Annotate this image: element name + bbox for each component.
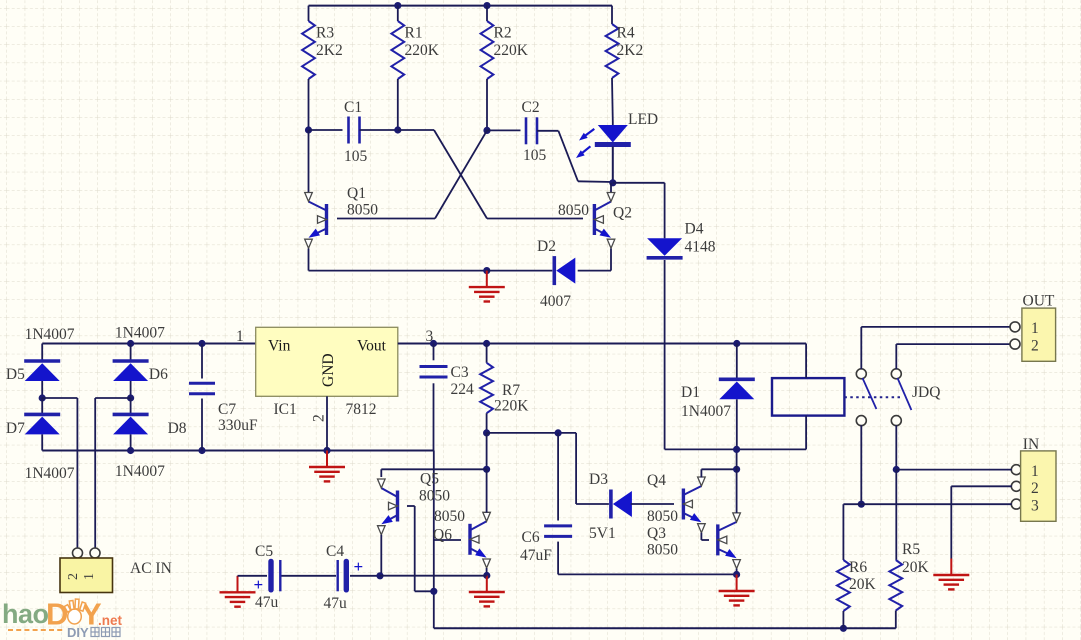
svg-text:3: 3 — [1031, 498, 1039, 515]
diode D6 — [113, 361, 149, 381]
wire D6 top lead — [130, 344, 132, 362]
contact 1b — [856, 416, 866, 426]
junction — [430, 340, 437, 347]
svg-text:47uF: 47uF — [520, 547, 552, 564]
junction — [483, 572, 490, 579]
D4 bottom lead — [664, 260, 666, 449]
wire C2 diagonal — [558, 131, 578, 182]
svg-text:C6: C6 — [522, 529, 540, 546]
contact 2a — [891, 369, 901, 379]
junction — [127, 447, 134, 454]
capacitor C5 — [268, 559, 273, 593]
wire IN1 row — [896, 469, 1011, 471]
Q6 emitter lead — [486, 568, 488, 576]
wire R2 top lead — [486, 6, 488, 21]
wire R6 bottom lead — [842, 611, 844, 628]
Q6 collector lead — [486, 469, 488, 512]
svg-text:R6: R6 — [849, 559, 867, 576]
wire center column — [433, 451, 435, 629]
svg-text:C7: C7 — [218, 401, 236, 418]
wire AC tap 1 horizontal — [42, 397, 77, 399]
svg-text:8050: 8050 — [647, 508, 678, 525]
svg-text:1: 1 — [236, 328, 244, 345]
diode D7 — [24, 414, 60, 434]
wire R5 bottom lead — [895, 611, 897, 629]
wire C3 bottom lead — [433, 383, 435, 450]
D4 top lead — [664, 183, 666, 239]
wire D1 top lead — [736, 344, 738, 380]
wire to OUT2 — [896, 343, 1010, 345]
svg-text:D3: D3 — [589, 471, 608, 488]
svg-text:224: 224 — [451, 381, 475, 398]
svg-text:8050: 8050 — [347, 202, 378, 219]
svg-text:R3: R3 — [316, 25, 334, 42]
LED light arrow 1 — [579, 133, 588, 141]
ground (Q3) — [719, 575, 755, 606]
svg-text:GND: GND — [320, 353, 337, 387]
wire gnd to C5 — [238, 575, 268, 577]
junction — [430, 588, 437, 595]
IN pin 2 circle — [1011, 481, 1021, 491]
Q1 emitter wire — [308, 249, 310, 271]
wire C7 bottom lead — [201, 399, 203, 451]
resistor R5 — [889, 560, 902, 611]
wire D5-D7 link — [41, 381, 43, 398]
svg-text:C4: C4 — [326, 543, 344, 560]
IC GND pin wire — [326, 396, 328, 450]
svg-text:D7: D7 — [6, 420, 25, 437]
wire bottom bus — [434, 627, 896, 629]
junction — [483, 429, 490, 436]
Q3 collector wire — [736, 469, 738, 513]
wire D8 top lead — [130, 398, 132, 414]
wire contact2b down — [895, 425, 897, 469]
wire C3 top lead — [433, 344, 435, 361]
svg-text:D8: D8 — [168, 420, 187, 437]
transistor Q5 — [378, 479, 398, 535]
svg-text:IC1: IC1 — [274, 401, 297, 418]
ground (flip-flop) — [469, 271, 505, 302]
wire Q6 base — [434, 539, 461, 541]
svg-text:1N4007: 1N4007 — [25, 326, 75, 343]
wire Q1 base — [337, 218, 435, 220]
svg-text:105: 105 — [523, 147, 547, 164]
wire R3 top lead — [308, 6, 310, 21]
wire Vout rail — [398, 343, 806, 345]
resistor R3 — [302, 21, 315, 79]
wire D2 anode to Q2 — [578, 270, 611, 272]
wire R7 node down — [486, 433, 488, 469]
IC U1 7812 body — [256, 327, 398, 396]
wire cross diagonal 1 — [434, 130, 487, 219]
wire D7 bottom lead — [41, 434, 43, 450]
connector IN body — [1021, 451, 1056, 521]
wire R7 to C6/D3 — [487, 432, 576, 434]
wire Q2 base — [487, 218, 583, 220]
svg-text:LED: LED — [628, 111, 658, 128]
svg-text:2: 2 — [311, 414, 328, 422]
wire C6 bottom lead — [557, 542, 559, 575]
junction — [733, 466, 740, 473]
Q2 emitter wire — [610, 249, 612, 271]
capacitor C1 — [349, 117, 360, 144]
wire AC tap 2 vertical — [94, 398, 96, 548]
logo haoDIY.net — [2, 597, 123, 640]
Q4 emitter to Q3 base — [700, 533, 702, 540]
Q2 collector wire — [610, 183, 612, 193]
wire to R5 top — [895, 470, 897, 561]
resistor R6 — [837, 560, 850, 611]
svg-text:R7: R7 — [502, 382, 520, 399]
svg-text:220K: 220K — [405, 42, 440, 59]
OUT pin 1 circle — [1010, 322, 1020, 332]
junction — [483, 2, 490, 9]
svg-text:JDQ: JDQ — [912, 384, 940, 401]
svg-text:OUT: OUT — [1023, 293, 1055, 310]
wire R4 top lead — [611, 6, 613, 24]
svg-text:Vin: Vin — [268, 338, 291, 355]
svg-text:2K2: 2K2 — [617, 42, 644, 59]
junction — [394, 126, 401, 133]
capacitor C7 — [189, 383, 215, 394]
svg-text:R4: R4 — [617, 25, 635, 42]
wire node A to cross — [398, 129, 434, 131]
svg-text:1: 1 — [82, 573, 97, 580]
wire Q5 collector row — [381, 468, 486, 470]
svg-text:R1: R1 — [405, 25, 423, 42]
svg-text:C1: C1 — [344, 99, 362, 116]
svg-text:Q4: Q4 — [647, 472, 666, 489]
transistor Q3 — [718, 513, 741, 569]
OUT pin 2 circle — [1010, 339, 1020, 349]
svg-text:1: 1 — [1031, 320, 1039, 337]
wire contact1b down — [860, 425, 862, 504]
wire R7 top lead — [486, 344, 488, 363]
svg-text:R5: R5 — [902, 541, 920, 558]
capacitor C4 — [337, 560, 339, 591]
junction — [609, 179, 616, 186]
ground (IC1) — [309, 451, 345, 482]
resistor R4 — [606, 24, 619, 78]
junction — [840, 625, 847, 632]
svg-text:1: 1 — [1031, 463, 1039, 480]
AC pin 2 circle — [73, 548, 83, 558]
junction — [127, 340, 134, 347]
svg-text:330uF: 330uF — [218, 417, 258, 434]
svg-text:C2: C2 — [522, 99, 540, 116]
diode D5 — [24, 361, 60, 381]
wire AC tap 2 horizontal — [95, 397, 130, 399]
junction — [127, 394, 134, 401]
svg-text:4148: 4148 — [685, 239, 716, 256]
svg-text:D: D — [46, 597, 68, 632]
junction — [483, 340, 490, 347]
wire Vin rail — [42, 343, 256, 345]
relay dotted link — [844, 396, 901, 398]
svg-text:47u: 47u — [324, 595, 348, 612]
svg-text:220K: 220K — [494, 398, 529, 415]
svg-text:C5: C5 — [255, 543, 273, 560]
resistor R2 — [481, 21, 494, 79]
svg-text:1N4007: 1N4007 — [115, 325, 165, 342]
wire C1 left — [309, 129, 343, 131]
junction — [483, 127, 490, 134]
svg-text:+: + — [254, 575, 264, 594]
wire to D3 cathode — [576, 503, 609, 505]
ground (IN2) — [933, 559, 969, 590]
wire D6-D8 link — [130, 381, 132, 398]
wire AC tap 1 vertical — [76, 398, 78, 548]
capacitor C6 — [544, 526, 572, 537]
wire D1 bottom lead — [736, 399, 738, 449]
junction — [733, 340, 740, 347]
svg-text:D5: D5 — [6, 366, 25, 383]
junction — [733, 571, 740, 578]
svg-text:IN: IN — [1023, 436, 1039, 453]
wire IN2 row — [951, 485, 1011, 487]
junction — [555, 429, 562, 436]
wire to D2 cathode — [487, 270, 553, 272]
svg-text:AC IN: AC IN — [130, 560, 172, 577]
svg-text:hao: hao — [2, 599, 49, 629]
transistor Q6 — [470, 512, 490, 568]
wire D3 to Q4 base — [631, 503, 674, 505]
wire R1 top lead — [397, 6, 399, 21]
wire contact2 up — [895, 344, 897, 369]
wire LED node to D4 — [613, 182, 665, 184]
zener D3 — [611, 490, 632, 519]
wire C5 to C4 — [282, 575, 337, 577]
wire R4 bottom lead — [611, 78, 614, 122]
relay JDQ coil — [772, 378, 844, 416]
LED D1 (led) — [595, 125, 631, 145]
wire R3 bottom lead — [308, 79, 310, 130]
svg-text:D1: D1 — [681, 384, 700, 401]
wire IN2 down — [950, 486, 952, 558]
Q5 emitter lead — [380, 535, 382, 576]
Q3 emitter lead — [736, 569, 738, 575]
wire C6 to Q3 emitter — [558, 573, 737, 575]
ground (Q6) — [469, 576, 505, 607]
svg-text:Q6: Q6 — [433, 527, 452, 544]
svg-text:2: 2 — [1031, 480, 1039, 497]
junction — [198, 447, 205, 454]
contact 1a — [856, 369, 866, 379]
transistor Q4 — [683, 477, 705, 533]
svg-text:Q1: Q1 — [347, 185, 366, 202]
svg-text:5V1: 5V1 — [589, 525, 616, 542]
wire ground bus — [42, 450, 433, 452]
junction — [893, 466, 900, 473]
wire R6 top lead — [842, 504, 844, 560]
svg-text:1N4007: 1N4007 — [115, 463, 165, 480]
wire C1 right — [360, 129, 398, 131]
wire down to D3 — [575, 433, 577, 504]
wire C7 top lead — [201, 344, 203, 379]
svg-text:20K: 20K — [849, 576, 877, 593]
Q4 collector wire — [700, 469, 702, 477]
LED light arrow 2 — [576, 150, 585, 158]
svg-text:R2: R2 — [494, 25, 512, 42]
ground (C5) — [220, 576, 256, 607]
svg-text:2: 2 — [1031, 338, 1039, 355]
switch blade 2 — [898, 378, 912, 410]
wire to Q6 emitter node — [380, 575, 487, 577]
resistor R1 — [391, 21, 404, 79]
diode D2 — [554, 256, 575, 285]
wire top bus — [309, 5, 613, 7]
svg-text:+: + — [354, 557, 364, 576]
wire LED top lead — [612, 122, 614, 125]
Q1 collector wire — [308, 130, 310, 193]
resistor R7 — [480, 363, 493, 413]
svg-text:220K: 220K — [494, 42, 529, 59]
svg-text:D2: D2 — [537, 238, 556, 255]
wire R7 bottom lead — [486, 413, 488, 433]
diode D1 — [719, 379, 755, 399]
IN pin 1 circle — [1011, 465, 1021, 475]
capacitor C2 — [526, 117, 537, 144]
svg-text:2: 2 — [66, 573, 81, 580]
junction — [483, 267, 490, 274]
junction — [858, 501, 865, 508]
svg-text:4007: 4007 — [540, 293, 571, 310]
wire Q5 base to column — [415, 590, 434, 592]
switch blade 1 — [863, 378, 877, 409]
wire C2 left — [487, 129, 521, 131]
svg-text:20K: 20K — [902, 559, 930, 576]
wire cross diagonal 2 — [435, 130, 487, 218]
svg-text:C3: C3 — [451, 364, 469, 381]
svg-text:8050: 8050 — [434, 508, 465, 525]
transistor Q2 — [594, 193, 614, 249]
svg-text:2K2: 2K2 — [316, 42, 343, 59]
svg-text:8050: 8050 — [647, 542, 678, 559]
wire D8 bottom lead — [130, 434, 132, 451]
svg-text:.net: .net — [98, 613, 123, 628]
svg-text:Q2: Q2 — [613, 205, 632, 222]
svg-text:Q3: Q3 — [647, 525, 666, 542]
wire to LED node — [578, 180, 613, 183]
junction — [733, 446, 740, 453]
diode D4 — [647, 238, 683, 257]
svg-text:Q5: Q5 — [420, 471, 439, 488]
wire contact1 up — [860, 327, 862, 369]
IN pin 3 circle — [1011, 499, 1021, 509]
svg-text:7812: 7812 — [346, 401, 377, 418]
junction — [39, 394, 46, 401]
wire C4 to node — [350, 575, 380, 577]
svg-text:47u: 47u — [255, 594, 279, 611]
svg-text:1N4007: 1N4007 — [681, 403, 731, 420]
wire D5 top lead — [41, 344, 43, 362]
wire relay node down — [736, 449, 738, 469]
svg-text:105: 105 — [344, 148, 368, 165]
Q5 collector lead — [380, 469, 382, 477]
diode D8 — [113, 414, 149, 434]
wire C6 top lead — [557, 433, 559, 521]
junction — [323, 447, 330, 454]
svg-text:8050: 8050 — [558, 202, 589, 219]
svg-text:8050: 8050 — [419, 488, 450, 505]
svg-text:D4: D4 — [685, 221, 704, 238]
wire relay bottom lead — [805, 416, 807, 450]
wire C2 right — [537, 130, 558, 132]
transistor Q1 — [305, 193, 327, 249]
wire IN3 row — [843, 503, 1011, 505]
junction — [483, 466, 490, 473]
Q5 base wire — [407, 505, 415, 507]
junction — [376, 572, 383, 579]
junction — [394, 2, 401, 9]
svg-text:Vout: Vout — [357, 338, 387, 355]
contact 2b — [891, 416, 901, 426]
svg-text:D6: D6 — [149, 366, 168, 383]
wire relay top lead — [805, 344, 807, 379]
junction — [198, 340, 205, 347]
wire D7 top lead — [41, 398, 43, 414]
svg-text:1N4007: 1N4007 — [25, 465, 75, 482]
wire R2 bottom lead — [486, 79, 488, 130]
connector OUT body — [1022, 308, 1056, 361]
wire to OUT1 — [861, 326, 1010, 328]
svg-text:DIY: DIY — [67, 625, 89, 640]
LED cathode lead — [612, 147, 614, 183]
capacitor C3 — [420, 367, 448, 378]
wire R1 bottom lead — [397, 79, 399, 130]
AC pin 1 circle — [90, 548, 100, 558]
connector AC IN body — [60, 558, 113, 593]
wire relay bottom row — [665, 448, 807, 450]
junction — [305, 126, 312, 133]
wire emitter row left — [309, 270, 487, 272]
